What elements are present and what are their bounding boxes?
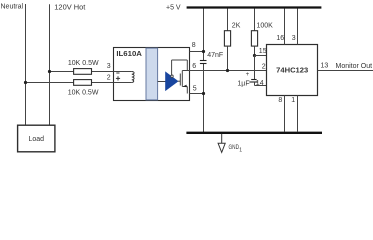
svg-text:2K: 2K [232,22,241,29]
pin 14 wire [255,85,267,87]
svg-text:1µF: 1µF [237,80,249,87]
input coil box [114,72,135,83]
svg-text:15: 15 [259,48,267,55]
pin 13 wire / monitor out [318,70,373,72]
svg-text:3: 3 [292,35,296,42]
junction hot/R1 [48,70,51,73]
minus label [116,72,119,74]
svg-text:10K 0.5W: 10K 0.5W [68,90,99,97]
output transistor Q1 [178,71,188,94]
pin 8 wire (74HC123) [284,96,286,133]
svg-text:Neutral: Neutral [1,3,24,10]
gnd line below 47nF [203,64,205,133]
pin 8 stub wire [190,51,204,53]
gate plate [179,74,181,86]
svg-text:Monitor Out: Monitor Out [336,63,373,70]
svg-text:100K: 100K [257,22,274,29]
+5V rail [187,6,322,8]
isolation barrier band [146,48,158,100]
source lead [182,86,187,88]
svg-text:+5 V: +5 V [166,5,181,12]
net Neutral (vertical line) [25,4,27,125]
svg-text:14: 14 [256,80,264,87]
op-amp triangle (blue) [166,72,179,91]
svg-text:6: 6 [192,63,196,70]
wire neutral to R2 [26,82,74,84]
pin 1 wire (74HC123) [297,96,299,133]
svg-text:47nF: 47nF [207,52,223,59]
svg-text:120V Hot: 120V Hot [54,4,85,11]
junction 2K/output wire [226,69,229,72]
svg-text:Load: Load [29,136,45,143]
ground rail [186,132,322,134]
tip to gate wire [178,80,181,82]
svg-text:5: 5 [193,86,197,93]
wire R1 to IL610A pin 3 [92,71,114,73]
svg-text:13: 13 [321,63,329,70]
svg-text:74HC123: 74HC123 [276,65,308,74]
svg-text:1: 1 [239,148,242,154]
amp input wire [158,81,166,83]
net 120V Hot (vertical line) [49,4,51,125]
pin 5 stub wire [190,93,204,95]
svg-text:+: + [246,71,250,78]
capacitor C1 47nF [200,61,207,64]
svg-text:2: 2 [262,63,266,70]
coil [132,72,134,83]
svg-text:16: 16 [276,35,284,42]
svg-text:8: 8 [192,42,196,49]
junction 100K/pin15 [253,54,256,57]
capacitor C2 1uF [237,56,258,88]
pin 16 wire [284,9,286,45]
resistor R3 2K [224,9,240,71]
+5V drop to pin8 / 47nF [203,9,205,61]
ground symbol [218,134,225,153]
plus label [116,76,120,80]
junction pin8/+5V [202,50,205,53]
svg-text:GND: GND [229,144,240,151]
load box [18,125,55,152]
wire R2 to IL610A pin 2 [92,82,114,84]
svg-text:1: 1 [291,97,295,104]
svg-text:IL610A: IL610A [116,49,142,58]
junction neutral/R2 [24,81,27,84]
resistor R4 100K [251,9,273,56]
svg-text:10K 0.5W: 10K 0.5W [68,60,99,67]
resistor R1 10K 0.5W [68,60,99,74]
pin 6 / output wire to 74HC123 pin 2 [182,70,266,72]
svg-text:2: 2 [107,74,111,81]
source arrow [183,85,187,88]
wire hot to R1 [50,71,74,73]
channel plate [181,71,183,87]
feedback loop wire [172,60,188,75]
svg-text:8: 8 [278,97,282,104]
pin 15 wire [255,55,267,57]
pin 3 wire (74HC123) [297,9,299,45]
bubble on triangle top [171,75,173,77]
resistor R2 10K 0.5W [68,80,99,97]
junction pin5/gnd [202,92,205,95]
IC U2 74HC123 [267,45,318,96]
svg-text:3: 3 [107,63,111,70]
opto-isolator U1 IL610A box [114,48,190,101]
